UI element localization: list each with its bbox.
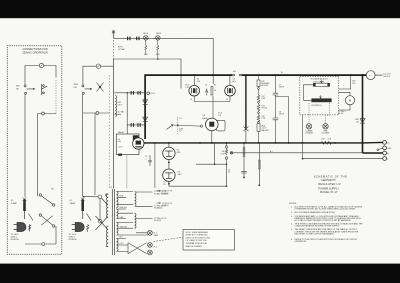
AC input riser arrow — [112, 31, 115, 189]
T1 secondary winding — [116, 192, 118, 208]
wire 230V mid — [38, 113, 57, 115]
B+ bus top (thick) — [145, 74, 366, 76]
svg-text:NE-51: NE-51 — [143, 33, 148, 35]
svg-text:10: 10 — [190, 99, 192, 101]
wire rectifier top — [114, 92, 144, 94]
title block — [314, 174, 347, 194]
svg-text:VOLTS: VOLTS — [262, 108, 268, 110]
label trimmer — [179, 118, 184, 133]
filament loop chain B — [135, 213, 137, 228]
note box — [183, 230, 235, 251]
switch SW-115 — [82, 85, 92, 94]
svg-text:.1: .1 — [145, 158, 146, 160]
svg-text:154: 154 — [356, 122, 359, 124]
svg-text:V1 (6L6): V1 (6L6) — [162, 193, 169, 195]
label SPST — [118, 47, 126, 51]
svg-text:R13 COARSE: R13 COARSE — [314, 80, 326, 83]
svg-text:SOURCE: SOURCE — [69, 239, 78, 241]
fuse F230 — [39, 63, 43, 67]
svg-text:6AU6: 6AU6 — [203, 117, 209, 120]
output bus bottom (thick) — [144, 142, 363, 144]
label SEC winding — [118, 102, 123, 107]
arrow TO PIN labels row3 — [154, 218, 167, 222]
node V3 bus — [211, 142, 213, 144]
label SW1 — [74, 84, 79, 89]
label knobs — [305, 130, 330, 135]
wire box wiring — [304, 75, 351, 100]
svg-text:56: 56 — [214, 90, 216, 92]
tube V4 OB2 — [163, 147, 175, 159]
pilot lamp PL3 — [148, 250, 153, 255]
svg-text:450 V: 450 V — [150, 93, 155, 95]
svg-text:40: 40 — [228, 172, 230, 174]
node l3 — [226, 185, 228, 187]
wire v2 plate — [229, 75, 231, 85]
svg-text:0-400 V: 0-400 V — [384, 76, 391, 78]
terminal post 2 — [383, 146, 387, 150]
wire grid feed — [114, 38, 214, 88]
line cord plug 115 — [72, 211, 85, 232]
wire screen to bus — [245, 129, 247, 143]
terminal post 1 — [383, 141, 387, 145]
label C6 — [228, 170, 230, 174]
screen feed (thick) — [245, 74, 247, 129]
wire negative out (thick) — [363, 152, 383, 154]
svg-text:B+: B+ — [387, 142, 389, 144]
svg-text:3 AMP: 3 AMP — [70, 202, 77, 205]
meter M2 output — [366, 71, 375, 80]
svg-text:1.5: 1.5 — [179, 118, 181, 120]
wire grid V3 — [173, 125, 201, 126]
resistor R1a dropping — [145, 40, 147, 54]
node v1 top — [194, 74, 196, 76]
pot R16 — [311, 95, 331, 102]
svg-text:MODEL IP-17: MODEL IP-17 — [320, 190, 338, 194]
capacitor C2B — [137, 91, 140, 95]
selector switch 230 — [42, 84, 48, 95]
arrow TO PIN labels row1 — [154, 191, 168, 195]
node between — [168, 162, 170, 164]
T1 core — [112, 189, 114, 255]
svg-text:B+: B+ — [281, 72, 283, 74]
capacitor C2C — [131, 123, 134, 127]
wire meter drop — [302, 115, 304, 159]
label lamps — [154, 233, 159, 249]
svg-text:10: 10 — [226, 99, 228, 101]
diode screen — [243, 127, 248, 132]
dashed arrow to note box — [154, 237, 183, 241]
node grid — [177, 124, 179, 126]
arrow TO PIN labels row2 — [154, 205, 167, 209]
capacitor C9 — [241, 171, 247, 173]
label V2 — [232, 79, 236, 84]
node reg top — [168, 142, 170, 144]
tube V3 6AU6 — [206, 118, 226, 131]
wire meter to label — [375, 74, 382, 76]
svg-text:HEATHKIT®: HEATHKIT® — [321, 178, 335, 182]
svg-text:125UF: 125UF — [279, 87, 284, 89]
svg-text:R2: R2 — [214, 85, 216, 87]
svg-text:SOURCE: SOURCE — [11, 239, 20, 241]
switch lower 115 — [87, 214, 92, 221]
capacitor C3 — [206, 89, 209, 96]
label meter feed — [338, 111, 345, 115]
power transformer T1 — [106, 189, 118, 255]
pot R13 — [313, 80, 329, 86]
tube V1 6L6 — [189, 85, 200, 96]
wire 115V verticals — [83, 94, 110, 196]
lamp A+ — [230, 152, 233, 155]
svg-text:DIRECTLY AT SOCKET LUGS: DIRECTLY AT SOCKET LUGS — [186, 236, 211, 239]
diode D3 clamp — [360, 119, 365, 124]
label V4 — [177, 150, 182, 155]
node j1 — [126, 92, 128, 94]
label plug 115 — [69, 234, 78, 241]
svg-text:OTHERWISE NOTED. ALL K=1000 OH: OTHERWISE NOTED. ALL K=1000 OHMS, MEG=1,… — [295, 208, 356, 211]
svg-text:140 V: 140 V — [118, 105, 123, 107]
wire reg — [168, 143, 170, 147]
wire meter bottom — [339, 105, 350, 110]
svg-text:NO LOAD CONNECTED AND CONTROLS: NO LOAD CONNECTED AND CONTROLS SET AT MA… — [295, 219, 352, 222]
label tap colors — [120, 196, 128, 246]
wire sense drop — [154, 143, 156, 188]
label C7 C8 — [279, 85, 284, 116]
jack J1 gap — [233, 74, 235, 76]
svg-text:NE-51: NE-51 — [156, 33, 161, 35]
resistor R1b dropping — [157, 40, 159, 58]
node R9 end — [243, 177, 245, 179]
svg-text:ON: ON — [74, 87, 78, 89]
wire 230V vertical runs — [25, 94, 38, 197]
terminal post 4 — [383, 157, 387, 161]
svg-text:VOLTAGE: VOLTAGE — [305, 132, 314, 135]
label R10 — [322, 139, 332, 141]
diode D1 — [143, 100, 148, 105]
resistor R230 — [29, 225, 31, 230]
svg-text:R10: R10 — [322, 139, 325, 141]
lamp NE2 — [156, 36, 161, 41]
svg-text:POWER SUPPLY: POWER SUPPLY — [318, 186, 339, 190]
svg-text:PL-2: PL-2 — [154, 247, 158, 249]
svg-text:230VAC OPERATION: 230VAC OPERATION — [22, 50, 47, 54]
label 3.9K — [218, 113, 223, 118]
label C5 — [145, 156, 147, 160]
svg-text:NOTE: THESE WIRES AND: NOTE: THESE WIRES AND — [186, 231, 209, 234]
resistor R10 — [321, 142, 332, 145]
node R18 end — [258, 184, 260, 186]
svg-text:.05: .05 — [163, 184, 165, 186]
label feed2 — [162, 203, 173, 207]
node l1 — [214, 163, 216, 165]
svg-text:WIRES NOT CONNECTED: WIRES NOT CONNECTED — [186, 235, 209, 237]
wire V6 to bus — [144, 142, 146, 144]
node lower tap 230 — [42, 112, 45, 115]
note box text — [186, 231, 211, 248]
wire 230V loop top — [25, 66, 56, 86]
wire A+ line — [233, 152, 363, 154]
svg-text:+ -: + - — [369, 74, 372, 77]
svg-text:3 AMP: 3 AMP — [11, 202, 18, 205]
node filter top — [275, 74, 277, 76]
rectifier box V6 — [116, 134, 139, 156]
filament loop chain A — [135, 192, 137, 207]
switch lower 230 — [29, 214, 34, 232]
node bus dots — [154, 74, 364, 159]
terminal arm circuit 230 — [25, 194, 56, 246]
label R19 — [352, 80, 356, 84]
rectifier bus left (thick) — [144, 74, 146, 139]
T1 secondary tap leads — [118, 192, 149, 252]
node bus r8 — [226, 142, 228, 144]
switch SW-230 — [24, 85, 34, 94]
svg-text:OF V1 AND V2 RUN TO A: OF V1 AND V2 RUN TO A — [186, 239, 208, 242]
wire V5 down — [168, 181, 170, 186]
svg-text:117 VAC: 117 VAC — [118, 48, 126, 51]
svg-text:OPERATION.: OPERATION. — [295, 240, 308, 243]
capacitor C2D — [137, 123, 140, 127]
label terminals — [387, 142, 392, 160]
bleeder chain R11-R15 — [257, 75, 260, 143]
label SW 230 — [16, 86, 19, 91]
svg-text:REGULATED L/V: REGULATED L/V — [318, 182, 340, 186]
node meter tap — [350, 74, 352, 76]
svg-text:SCHEMATIC OF THE: SCHEMATIC OF THE — [314, 174, 347, 178]
svg-text:125UF: 125UF — [279, 114, 284, 116]
label F1b — [70, 200, 77, 205]
node heater junction — [157, 58, 159, 60]
wire low net — [169, 143, 227, 186]
svg-text:2 W: 2 W — [218, 115, 221, 117]
resistor R115 — [87, 225, 89, 232]
label grid left — [185, 85, 190, 90]
svg-text:BALLAST: BALLAST — [262, 129, 269, 132]
node v2 top — [229, 74, 231, 76]
label feed1 — [162, 191, 173, 195]
lamp NE1 — [144, 36, 149, 41]
capacitor C2A — [131, 91, 134, 95]
label D3 — [355, 119, 359, 124]
tap arrow mid — [114, 113, 121, 115]
arrow feed 1 — [157, 190, 161, 191]
trimmer dashed — [177, 117, 179, 135]
wire filter link — [276, 97, 289, 143]
resistor R9 — [243, 148, 245, 157]
wire relay drop — [126, 155, 128, 189]
wire V3 cathode — [211, 131, 213, 143]
node l2 — [226, 163, 228, 165]
fuse F1 115 lower — [81, 198, 85, 212]
node V5 bottom — [168, 183, 170, 185]
wire heater bus top — [114, 37, 214, 39]
label R values — [144, 54, 161, 56]
knob shaft A — [306, 124, 311, 129]
svg-text:NOTES:: NOTES: — [289, 203, 297, 205]
resistor R8 series — [225, 143, 227, 164]
svg-text:VOLTAGE: VOLTAGE — [322, 132, 331, 135]
T2 winding on riser — [115, 96, 117, 117]
switch blades X 115 — [97, 83, 104, 92]
wire R18 branch — [258, 143, 260, 185]
T1 primary winding — [106, 194, 108, 218]
wire V4 V5 — [168, 160, 170, 170]
label R8 — [221, 151, 226, 155]
bus right vertical (thick) — [362, 74, 364, 153]
tube V6 6X4 — [133, 138, 144, 149]
wire C line — [303, 158, 383, 160]
node 115 feed — [83, 196, 85, 198]
node bleeder top — [258, 74, 260, 76]
svg-text:ALL VOLTAGES MEASURED WITH A V: ALL VOLTAGES MEASURED WITH A VTVM. — [295, 211, 336, 214]
svg-text:RELAY: RELAY — [118, 131, 125, 134]
terminal 450V — [147, 92, 150, 95]
grid cap V3 — [200, 125, 202, 127]
label DC OUTPUT — [384, 74, 392, 79]
label NE lamps — [143, 33, 161, 35]
label V5 — [178, 172, 183, 177]
node rect — [144, 113, 146, 115]
label bleeder — [262, 81, 271, 132]
label V3 — [203, 115, 209, 120]
mech link 230 dashed — [55, 80, 57, 114]
dashed enclosure 230VAC connections box — [7, 46, 62, 255]
jumper link t2 — [377, 148, 383, 151]
label cathode — [190, 99, 228, 101]
resistor R18 — [258, 160, 260, 169]
wire bus to terminal1 — [363, 141, 383, 144]
fuse F2 115 — [96, 64, 100, 68]
svg-text:GND: GND — [387, 148, 392, 150]
primary terminals — [83, 195, 108, 230]
pilot lamp PL2 — [148, 243, 153, 248]
svg-text:COMMON NEGATIVE RETURN OF THE: COMMON NEGATIVE RETURN OF THE SUPPLY. — [295, 225, 341, 228]
mech dashed links — [309, 103, 330, 123]
terminal post 3 — [383, 151, 387, 155]
notes list — [289, 203, 363, 243]
wire chain outputs — [136, 192, 153, 219]
arrow feed 2 — [157, 202, 161, 203]
svg-text:V2 (6L6): V2 (6L6) — [162, 205, 169, 207]
voltage adjust dashed box — [300, 76, 339, 115]
label R2 — [205, 85, 216, 92]
label F1 — [11, 200, 18, 205]
line cord plug 230 — [14, 211, 27, 232]
wire 115V loop top — [83, 66, 114, 85]
knob shaft B — [323, 124, 328, 129]
svg-text:ADJ 25K: ADJ 25K — [262, 84, 270, 87]
capacitor C5 — [148, 155, 152, 166]
svg-text:VOLTAGE ADJUST: VOLTAGE ADJUST — [310, 77, 328, 80]
svg-text:C3: C3 — [205, 85, 207, 87]
pilot lamp PL1 — [136, 230, 152, 235]
wire v1 plate — [193, 75, 195, 85]
svg-text:SW: SW — [16, 86, 19, 88]
capacitor C1A line filter — [127, 37, 131, 41]
scan grain — [0, 0, 1, 1]
filter caps C7 C8 — [273, 75, 279, 143]
svg-text:V6 (6X4): V6 (6X4) — [154, 220, 161, 222]
label plug 230 — [11, 234, 20, 241]
label V6 — [118, 139, 124, 149]
svg-text:TERMINAL STRIP AT THE: TERMINAL STRIP AT THE — [186, 242, 208, 245]
svg-text:10 W: 10 W — [221, 153, 225, 155]
svg-text:R7: R7 — [179, 131, 181, 133]
label V1 — [197, 79, 201, 84]
svg-text:117 VAC: 117 VAC — [118, 111, 126, 114]
wire R9 branch — [243, 143, 245, 178]
svg-text:REAR OF CHASSIS.: REAR OF CHASSIS. — [186, 245, 203, 248]
svg-text:RED-YEL: RED-YEL — [120, 207, 127, 209]
svg-text:6X4: 6X4 — [118, 141, 121, 143]
svg-text:RECTIFIER TO THE OUTPUT TERMIN: RECTIFIER TO THE OUTPUT TERMINALS. — [295, 232, 335, 235]
tube V2 6L6 — [225, 85, 236, 96]
meter M1 — [345, 96, 354, 105]
svg-text:R16 FINE 1K: R16 FINE 1K — [312, 105, 323, 107]
svg-text:GRN-YEL: GRN-YEL — [120, 226, 128, 228]
label CONNECTIONS FOR 230VAC OPERATION — [22, 47, 47, 54]
wire cap link — [126, 93, 128, 134]
mechanical link dashed — [109, 75, 111, 188]
fuse F1 230 lower — [23, 198, 27, 212]
switch sense — [167, 124, 173, 129]
capacitor C1B line filter — [136, 37, 139, 41]
wire v1 cathode — [194, 96, 230, 118]
tube V5 OB2 — [163, 169, 175, 181]
crossing leads to lamps — [128, 243, 147, 254]
resistor R2 balance — [211, 87, 213, 96]
wire rectifier bottom — [127, 124, 144, 126]
diode D2 — [143, 117, 148, 122]
node lower tap 115 — [96, 112, 99, 115]
svg-text:OF V3: OF V3 — [338, 113, 343, 115]
label C7 — [163, 182, 165, 187]
svg-text:A +: A + — [270, 150, 273, 153]
